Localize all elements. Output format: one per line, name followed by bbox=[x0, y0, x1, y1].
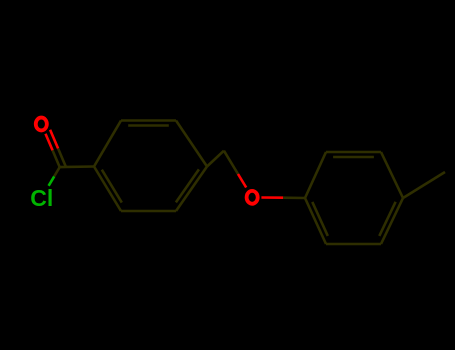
atom label O (carbonyl) drawn as ellipse ring bbox=[36, 118, 47, 131]
double bond C1=O1 line1 oxygen half bbox=[46, 134, 53, 151]
double bond C1=O1 line2 oxygen half bbox=[50, 130, 58, 149]
bond CH2-O2 carbon half bbox=[224, 151, 238, 174]
bond C1-ring1 bbox=[60, 165, 94, 168]
ring1 edge 0 bbox=[94, 121, 121, 167]
ring2 edge 3 bbox=[381, 198, 403, 244]
ring1 edge 3 bbox=[176, 167, 207, 212]
ring1 edge 4 bbox=[121, 210, 176, 213]
ring1 inner double line 5 bbox=[102, 170, 122, 203]
bond ring2-CH3 bbox=[403, 172, 445, 198]
bond C1-Cl chlorine half bbox=[49, 176, 55, 185]
ring2 edge 5 bbox=[305, 198, 326, 244]
ring1 edge 5 bbox=[94, 167, 121, 212]
bond ring1-CH2 bbox=[207, 151, 224, 167]
ring2 edge 4 bbox=[326, 243, 381, 246]
ring2 edge 2 bbox=[381, 152, 403, 198]
double bond C1=O1 line2 carbon half bbox=[58, 149, 66, 168]
ring2 edge 0 bbox=[305, 152, 326, 198]
bond O2-ring2 carbon half bbox=[283, 196, 305, 199]
double bond C1=O1 line1 carbon half bbox=[53, 150, 60, 167]
bond O2-ring2 oxygen half bbox=[261, 196, 283, 199]
bond C1-Cl carbon half bbox=[54, 167, 60, 176]
ring1 inner double line 3 bbox=[176, 169, 199, 202]
ring1 edge 1 bbox=[121, 119, 176, 122]
ring2 inner double line 5 bbox=[312, 202, 328, 236]
ring2 inner double line 1 bbox=[333, 156, 374, 159]
ring2 edge 1 bbox=[326, 151, 381, 154]
atom label O (ether) drawn as ellipse ring bbox=[247, 191, 258, 204]
ring1 inner double line 1 bbox=[128, 124, 169, 127]
ring2 inner double line 3 bbox=[379, 202, 395, 236]
bond CH2-O2 oxygen half bbox=[238, 174, 246, 188]
svg-text:Cl: Cl bbox=[30, 185, 53, 211]
ring1 edge 2 bbox=[176, 121, 207, 167]
